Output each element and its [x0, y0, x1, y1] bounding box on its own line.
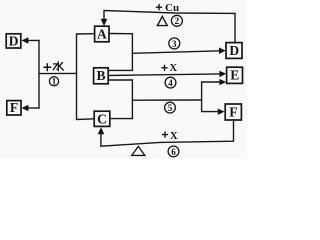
label circled 5 — [165, 102, 176, 113]
arrowhead into box F(right) — [218, 109, 225, 115]
label +水 — [43, 63, 51, 71]
svg-text:C: C — [97, 111, 107, 126]
wire bottom loop from F(right) to below C — [101, 120, 234, 146]
svg-text:D: D — [9, 33, 19, 48]
wire reaction 5 branch — [132, 99, 201, 101]
box F right — [225, 104, 241, 120]
svg-text:B: B — [96, 68, 105, 83]
label triangle (heat) top — [157, 16, 167, 25]
wire B right lower joining C right — [108, 80, 132, 119]
label circled 1 — [49, 77, 58, 86]
svg-text:1: 1 — [52, 77, 57, 87]
label +X middle — [161, 65, 167, 71]
box A — [95, 26, 109, 42]
svg-text:5: 5 — [168, 103, 173, 113]
svg-text:F: F — [229, 104, 237, 119]
label +X bottom — [162, 132, 168, 138]
svg-text:D: D — [229, 43, 239, 58]
arrowhead into box D(left) — [22, 37, 29, 44]
svg-text:4: 4 — [168, 78, 173, 88]
label + Cu — [156, 4, 162, 10]
box B — [94, 68, 109, 84]
arrowhead into box E lower — [219, 79, 226, 85]
wire reaction 4 from B to box E, +X — [108, 74, 220, 76]
arrowhead up into box C bottom — [98, 127, 105, 134]
wire reaction 3 to box D(right) — [132, 51, 220, 54]
arrowhead into box D(right) — [219, 48, 226, 54]
box F left — [7, 101, 21, 115]
label circled 6 — [168, 146, 179, 157]
label circled 3 — [169, 38, 180, 49]
svg-text:E: E — [230, 68, 239, 83]
label circled 2 — [171, 15, 182, 26]
wire A right joining B right — [108, 34, 132, 71]
wire to box D(left) — [28, 40, 39, 42]
arrowhead into box E upper — [219, 71, 226, 77]
wire left bracket joining A and C — [77, 34, 95, 120]
svg-text:F: F — [10, 100, 18, 115]
label circled 4 — [165, 77, 176, 88]
wire top loop from box D(right) up and left to above box A — [104, 11, 235, 43]
box D left — [6, 34, 21, 48]
wire junction splitting to E and F — [202, 82, 220, 112]
svg-text:2: 2 — [175, 16, 180, 26]
wire left splitter vertical — [38, 41, 40, 109]
box D right — [226, 43, 242, 59]
wire +water branch — [39, 72, 77, 74]
svg-text:Cu: Cu — [165, 2, 179, 14]
svg-text:X: X — [170, 63, 178, 74]
arrowhead into top of box A — [101, 19, 108, 26]
svg-text:A: A — [97, 27, 107, 42]
svg-text:X: X — [170, 131, 178, 142]
box C — [94, 111, 110, 126]
wire to box F(left) — [28, 107, 39, 109]
box E right — [227, 67, 243, 83]
svg-text:6: 6 — [171, 147, 176, 157]
arrowhead into box F(left) — [22, 105, 29, 112]
svg-text:3: 3 — [172, 39, 177, 49]
label triangle (heat) bottom — [132, 146, 145, 155]
